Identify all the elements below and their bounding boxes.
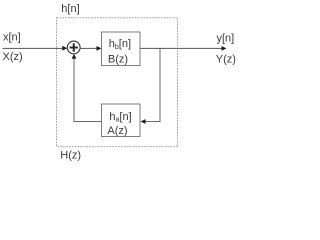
svg-text:ha[n]: ha[n]	[109, 111, 131, 124]
svg-text:Y(z): Y(z)	[216, 53, 236, 65]
svg-text:H(z): H(z)	[60, 150, 81, 162]
svg-text:A(z): A(z)	[107, 125, 127, 137]
svg-text:x[n]: x[n]	[3, 32, 21, 44]
svg-text:hb[n]: hb[n]	[109, 38, 131, 51]
svg-text:y[n]: y[n]	[217, 32, 235, 44]
svg-text:X(z): X(z)	[3, 51, 23, 63]
svg-text:B(z): B(z)	[108, 53, 128, 65]
svg-text:h[n]: h[n]	[61, 3, 79, 15]
